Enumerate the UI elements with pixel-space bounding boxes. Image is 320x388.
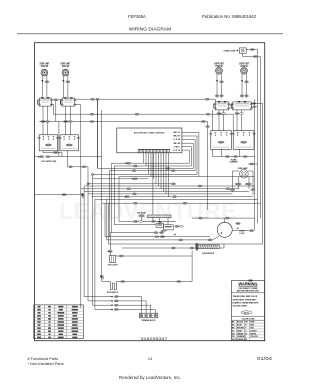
svg-text:TERMINAL BLOCK: TERMINAL BLOCK bbox=[142, 319, 157, 322]
svg-text:WARNING: WARNING bbox=[239, 281, 259, 286]
svg-text:ELEMENT: ELEMENT bbox=[230, 162, 239, 164]
svg-text:BEFORE SERVICING UNIT.: BEFORE SERVICING UNIT. bbox=[237, 290, 260, 292]
svg-text:DLB RELAY: DLB RELAY bbox=[137, 211, 147, 214]
svg-text:2400 W: 2400 W bbox=[41, 64, 49, 68]
svg-text:Publication No: 5995401642: Publication No: 5995401642 bbox=[202, 14, 257, 19]
svg-text:13: 13 bbox=[148, 357, 152, 361]
svg-text:BROWN: BROWN bbox=[237, 327, 245, 329]
svg-text:2400 W: 2400 W bbox=[62, 64, 70, 68]
svg-text:ELECTRONIC OVEN CONTROL: ELECTRONIC OVEN CONTROL bbox=[134, 132, 166, 134]
svg-text:NOTED FIRST, STRIPE NEXT.: NOTED FIRST, STRIPE NEXT. bbox=[233, 299, 258, 301]
svg-text:Rendered by LeadVenture, Inc.: Rendered by LeadVenture, Inc. bbox=[119, 375, 181, 380]
svg-text:LT 9: LT 9 bbox=[174, 150, 181, 152]
svg-text:VIOLET: VIOLET bbox=[250, 330, 257, 332]
svg-text:OVEN LIGHT: OVEN LIGHT bbox=[224, 51, 237, 53]
svg-text:L1 4: L1 4 bbox=[174, 138, 181, 141]
svg-text:* Non-Insulated Parts: * Non-Insulated Parts bbox=[28, 362, 64, 366]
svg-text:L1 BAT 10: L1 BAT 10 bbox=[174, 145, 181, 148]
svg-text:FEF365A: FEF365A bbox=[128, 14, 146, 19]
svg-text:EXAMPLE: GREEN WIRE WITH: EXAMPLE: GREEN WIRE WITH bbox=[233, 301, 260, 304]
svg-text:OVEN SENSOR: OVEN SENSOR bbox=[202, 253, 214, 255]
svg-text:GRAY: GRAY bbox=[237, 329, 243, 332]
svg-text:EOC SUPPLY PNL: EOC SUPPLY PNL bbox=[42, 161, 58, 163]
svg-text:BLACK: BLACK bbox=[237, 321, 244, 324]
svg-text:316255347: 316255347 bbox=[141, 336, 169, 341]
svg-text:BU 8: BU 8 bbox=[174, 136, 181, 138]
svg-text:GREEN-YEL: GREEN-YEL bbox=[237, 339, 248, 341]
svg-text:GREEN: GREEN bbox=[237, 333, 244, 335]
svg-text:YELLOW: YELLOW bbox=[250, 336, 258, 338]
svg-text:YELLOW STRIPE.: YELLOW STRIPE. bbox=[233, 306, 248, 308]
svg-text:PINK: PINK bbox=[250, 322, 255, 324]
svg-text:01/04: 01/04 bbox=[257, 356, 273, 361]
svg-text:WHITE: WHITE bbox=[250, 333, 256, 335]
svg-text:GN-YL: GN-YL bbox=[244, 312, 250, 314]
svg-text:TRACED WIRE: WIRE COLOR: TRACED WIRE: WIRE COLOR bbox=[233, 295, 259, 298]
svg-text:LEADVENTURE: LEADVENTURE bbox=[59, 198, 237, 224]
svg-text:LOCK: LOCK bbox=[240, 233, 245, 235]
svg-text:OVN LIGHT: OVN LIGHT bbox=[108, 265, 119, 267]
svg-text:DOOR SWITCH: DOOR SWITCH bbox=[107, 292, 118, 294]
svg-text:BK 11: BK 11 bbox=[174, 132, 181, 134]
svg-text:# Functional Parts: # Functional Parts bbox=[28, 357, 59, 361]
svg-text:N 6: N 6 bbox=[174, 143, 181, 145]
svg-text:BLUE: BLUE bbox=[237, 325, 243, 327]
svg-text:WIRING DIAGRAM: WIRING DIAGRAM bbox=[129, 27, 171, 33]
